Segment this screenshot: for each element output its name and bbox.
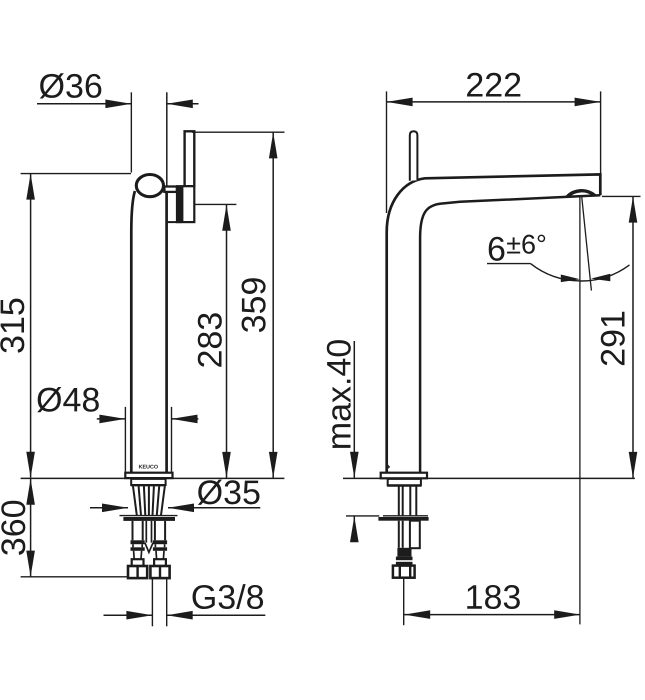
dimension Ø35 line (90, 504, 260, 513)
node 183 extension line (403, 578, 405, 626)
dimension 360 label (1, 501, 25, 555)
dimension 359 label (242, 278, 266, 332)
front view right supply hose (150, 521, 169, 578)
dimension 283 line (222, 205, 231, 478)
node 359 extension line (192, 131, 285, 133)
front view dome cap (136, 175, 163, 197)
dimension angle 6±6° label (489, 235, 545, 261)
node Ø36 extension line right (166, 92, 168, 186)
dimension 315 label (0, 299, 24, 353)
side view hose ribs (396, 557, 413, 566)
node spray axis line (579, 197, 581, 624)
node 222 extension line right (600, 91, 602, 174)
dimension G3/8 line (104, 611, 266, 620)
dimension max.40 line upper (350, 341, 359, 478)
side view body outline (387, 174, 601, 472)
side view hose block (397, 548, 411, 557)
node 291 extension line (602, 195, 641, 197)
side view hose upper (399, 521, 420, 549)
dimension angle leader line (487, 263, 531, 265)
dimension 291 label (601, 312, 625, 365)
side view hose nut (393, 566, 415, 578)
wire deck surface line left (21, 477, 285, 479)
dimension 222 label (467, 73, 520, 97)
side view base ring (381, 473, 427, 479)
dimension 222 line (387, 98, 601, 107)
node washer extension tick (346, 515, 379, 517)
dimension max.40 label (327, 340, 351, 448)
dimension 359 line (269, 132, 278, 478)
dimension Ø48 line (97, 415, 199, 424)
node 283 extension line (194, 203, 236, 205)
side view aerator (567, 191, 595, 197)
side view washer (378, 516, 428, 521)
dimension 360 line (26, 479, 35, 577)
dimension max.40 line lower (350, 516, 359, 542)
dimension Ø35 label (198, 480, 260, 505)
side view spout underside (420, 195, 600, 472)
front view mounting flange (131, 479, 166, 485)
side view threaded shank (399, 487, 417, 516)
node 222 extension line left (386, 91, 388, 213)
node Ø36 extension line left (130, 92, 132, 172)
front view body right edge (165, 189, 168, 473)
dimension 283 label (198, 313, 222, 367)
wire blade bottom step (167, 221, 182, 223)
side view logo tick (388, 465, 390, 469)
front view fixing rod (145, 521, 153, 552)
front view washer (120, 516, 178, 521)
front view left supply hose (128, 521, 147, 578)
side view mounting flange (387, 479, 421, 486)
KEUCO logo (139, 465, 158, 469)
dimension 183 label (467, 585, 520, 609)
front view lever stem (185, 131, 195, 186)
dimension Ø36 label (40, 73, 102, 98)
front view lever collar (177, 186, 194, 222)
dimension G3/8 label (193, 584, 264, 609)
node spray angle line (582, 197, 592, 290)
wire deck surface line right (343, 477, 635, 479)
dimension angle arrows (561, 274, 611, 282)
front view lever neck (164, 187, 177, 192)
dimension 315 line (26, 174, 35, 478)
front view threaded shank (133, 486, 165, 515)
node G3/8 extension lines (152, 578, 166, 626)
dimension 291 line (629, 197, 638, 478)
front view body left edge (131, 191, 135, 473)
node 315 extension line (21, 173, 131, 175)
dimension Ø36 line (37, 100, 199, 109)
dimension Ø48 label (37, 387, 99, 412)
dimension 183 line (404, 610, 580, 619)
front view base ring (125, 473, 172, 478)
dimension angle arc (531, 264, 630, 281)
side view lever rod (410, 131, 418, 181)
node hose end extension line (21, 576, 128, 578)
node Ø48 extension lines (125, 407, 171, 472)
